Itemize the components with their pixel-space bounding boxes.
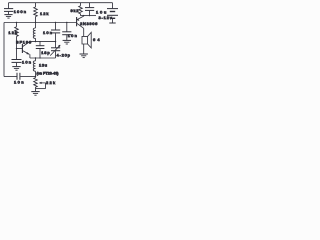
resistor R1 12k <box>34 3 38 23</box>
inductor L2 13u <box>33 58 35 78</box>
svg-text:3-12v: 3-12v <box>99 15 112 20</box>
ground (pot) <box>31 92 39 96</box>
ground (battery) <box>109 22 115 24</box>
svg-text:4-20p: 4-20p <box>57 53 71 58</box>
svg-text:12k: 12k <box>40 11 48 16</box>
inductor L1 RFC <box>33 23 35 42</box>
ground (C2) <box>12 67 20 71</box>
transistor Q2 2N3906 <box>77 16 84 37</box>
capacitor C7 10n (rail bypass) <box>62 23 71 41</box>
svg-text:12k: 12k <box>8 30 16 35</box>
capacitor C6 10u <box>85 3 94 16</box>
ground (speaker) <box>80 54 88 58</box>
svg-text:10n: 10n <box>68 33 77 38</box>
svg-text:2N3906: 2N3906 <box>80 21 98 26</box>
svg-text:10n: 10n <box>43 30 52 35</box>
capacitor C4 10n (tuning) <box>51 23 60 42</box>
node junction dots <box>16 15 90 77</box>
wire collector node <box>30 41 56 43</box>
speaker LS1 <box>82 32 91 53</box>
capacitor C3 18p <box>36 42 45 58</box>
wire emitter node <box>81 15 97 17</box>
battery B1 3-12v <box>107 3 118 23</box>
capacitor C8 10n (series) <box>17 73 36 80</box>
svg-text:10u: 10u <box>96 10 106 15</box>
svg-text:(on FT23-43): (on FT23-43) <box>37 72 59 76</box>
resistor R2 9k2 <box>79 3 83 16</box>
wire tank node <box>30 57 56 59</box>
svg-text:9k2: 9k2 <box>71 8 80 13</box>
potentiometer R4 22k <box>34 78 46 92</box>
wire top supply rail <box>9 2 113 4</box>
svg-text:100n: 100n <box>14 9 26 14</box>
wire bottom left <box>4 76 17 78</box>
svg-text:10n: 10n <box>14 79 24 84</box>
svg-text:10n: 10n <box>22 59 31 64</box>
capacitor C2 10n (base) <box>12 60 22 67</box>
svg-text:13u: 13u <box>39 63 47 68</box>
transistor Q1 BF199 <box>17 42 30 58</box>
capacitor C1 100n <box>4 3 13 15</box>
svg-text:64: 64 <box>93 37 100 42</box>
svg-text:22k: 22k <box>46 80 55 85</box>
ground (C7) <box>63 40 71 44</box>
wire left vertical <box>3 23 5 77</box>
resistor R3 12k <box>15 23 19 60</box>
wire base rail <box>4 22 77 24</box>
svg-text:18p: 18p <box>41 50 50 55</box>
ground (C1) <box>4 15 12 19</box>
trimmer capacitor C5 4-20p <box>50 42 60 58</box>
